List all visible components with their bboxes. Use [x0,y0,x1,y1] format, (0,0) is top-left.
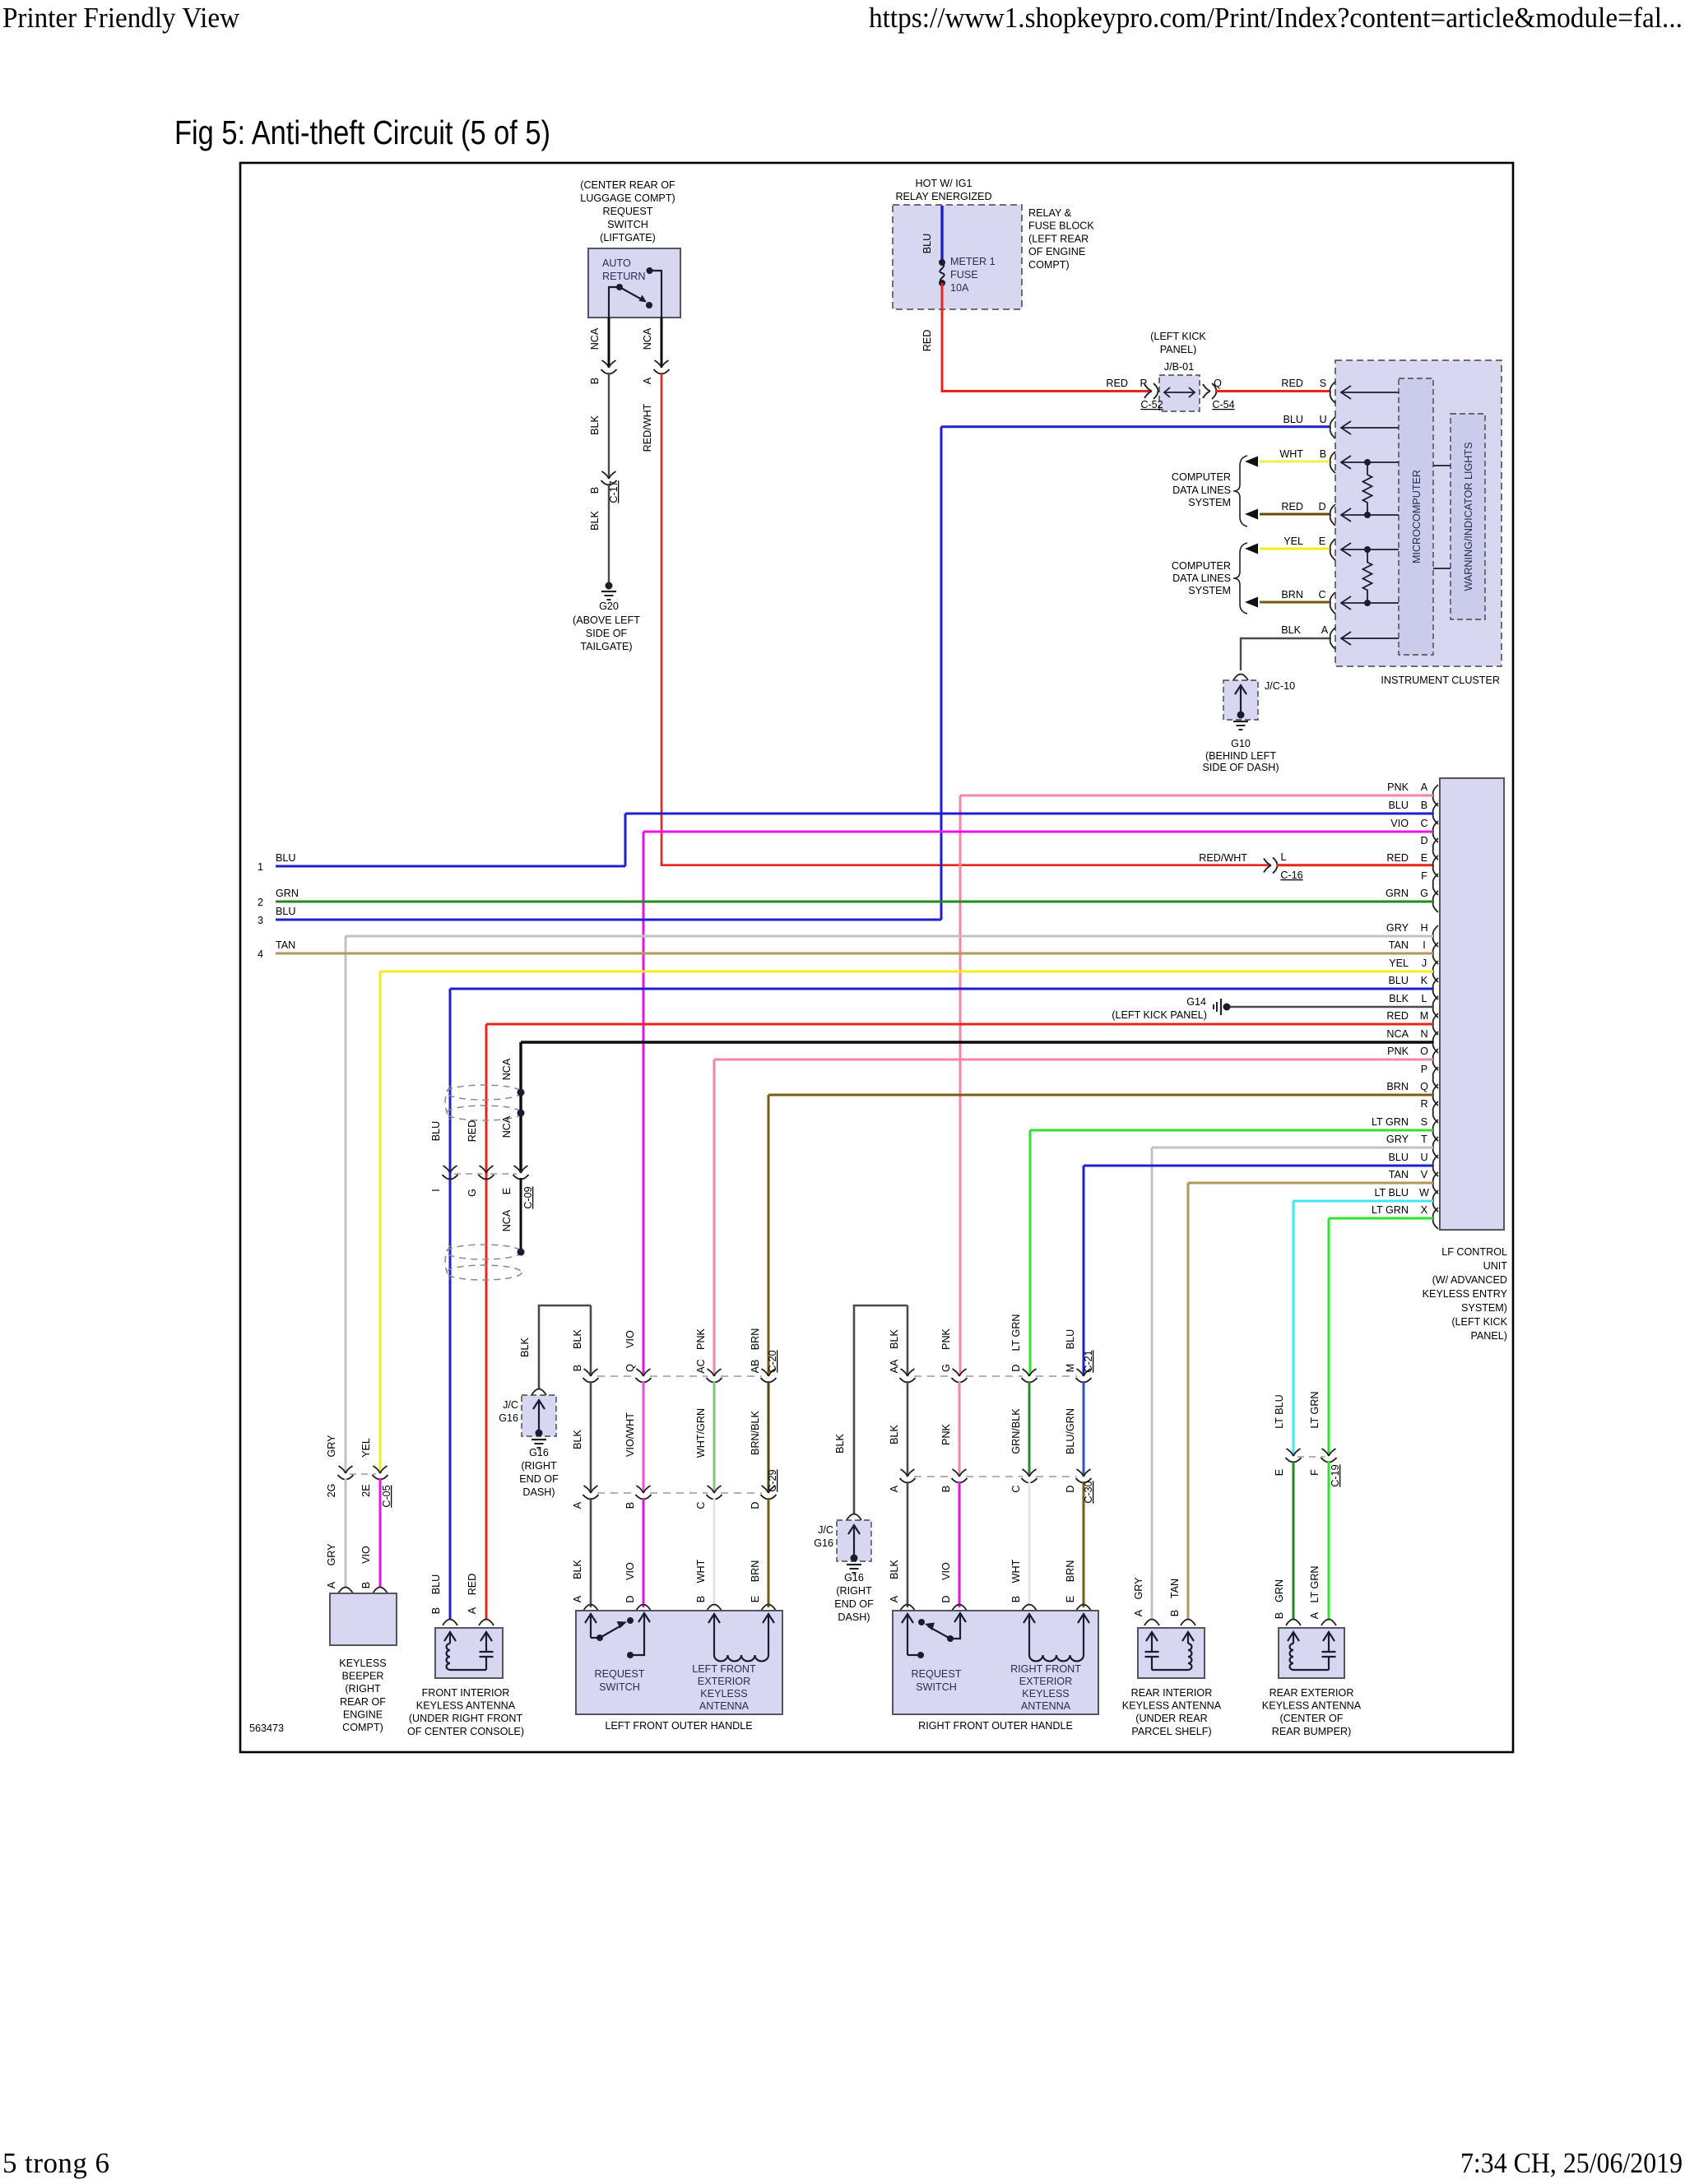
svg-text:NCA: NCA [589,327,601,350]
svg-text:AB: AB [750,1360,761,1374]
svg-text:YEL: YEL [1283,536,1303,547]
wire VIO/WHT C-20 to C-29 [643,1381,645,1491]
svg-text:UNIT: UNIT [1483,1260,1508,1272]
rear interior keyless antenna box [1138,1628,1205,1678]
svg-text:PANEL): PANEL) [1470,1330,1507,1342]
svg-text:GRY: GRY [1386,1134,1409,1145]
right request switch SW3 [907,1615,908,1655]
connector C-29 pin D [762,1486,776,1493]
svg-text:B: B [572,1365,583,1371]
svg-text:GRY: GRY [1386,922,1409,934]
shield twisted pair lower [446,1245,522,1259]
svg-text:RED: RED [921,330,933,352]
svg-text:B: B [1274,1612,1285,1619]
svg-text:BLU/GRN: BLU/GRN [1065,1408,1076,1454]
svg-text:SYSTEM): SYSTEM) [1461,1302,1507,1314]
svg-text:B: B [589,487,601,494]
svg-text:(RIGHT: (RIGHT [836,1585,872,1597]
wire BLU vertical to front interior antenna [449,989,452,1619]
svg-text:D: D [1010,1364,1022,1371]
wire GRY vertical to rear interior antenna [1151,1148,1154,1619]
svg-text:KEYLESS: KEYLESS [700,1688,747,1699]
svg-text:C-20: C-20 [767,1350,778,1372]
wire PNK vertical to C-20 [713,1060,716,1375]
svg-text:7:34 CH, 25/06/2019: 7:34 CH, 25/06/2019 [1460,2147,1683,2179]
wire TAN LF pin V [1188,1182,1433,1185]
svg-text:(UNDER REAR: (UNDER REAR [1135,1713,1207,1724]
wire BLK to ground G20 [608,484,610,583]
svg-text:METER 1: METER 1 [950,256,996,267]
svg-text:GRY: GRY [326,1435,337,1458]
LF pin T [1433,1137,1438,1158]
diagram frame [240,163,1513,1752]
wire VIO C-29 to switch [643,1498,645,1607]
svg-text:ANTENNA: ANTENNA [699,1700,750,1712]
connector C-17 [602,471,616,479]
antenna bottom bus [450,1669,486,1671]
svg-text:T: T [1421,1134,1427,1145]
left front exterior antenna L2 [713,1615,715,1655]
warning/indicator lights box [1451,414,1485,619]
svg-text:(LEFT KICK PANEL): (LEFT KICK PANEL) [1112,1009,1207,1021]
svg-text:S: S [1320,378,1326,389]
svg-text:563473: 563473 [249,1723,284,1734]
svg-text:RED: RED [1281,501,1303,512]
microcomputer box U2 [1399,378,1433,655]
svg-text:10A: 10A [950,282,969,294]
wire BLU LF pin K [450,988,1433,990]
ground G16 right [847,1564,861,1565]
wire GRY vertical to C-05 [345,936,347,1472]
svg-text:SWITCH: SWITCH [599,1681,640,1693]
svg-text:GRN: GRN [1386,888,1409,899]
svg-text:TAN: TAN [1389,1169,1409,1180]
wire BLU vertical (cluster U to line 3) [940,427,943,920]
svg-text:LT GRN: LT GRN [1309,1391,1321,1428]
svg-text:C-52: C-52 [1140,399,1163,410]
wire BLU LF pin U [1084,1165,1433,1167]
svg-text:REQUEST: REQUEST [603,206,653,217]
svg-text:PNK: PNK [940,1328,952,1349]
connector C-54 [1203,384,1210,398]
wire VIO to beeper pin B [379,1478,382,1587]
svg-text:ENGINE: ENGINE [343,1709,383,1720]
svg-text:WARNING/INDICATOR LIGHTS: WARNING/INDICATOR LIGHTS [1463,443,1474,591]
LF control unit box [1440,778,1504,1230]
wire TAN vertical to rear interior antenna [1187,1183,1190,1619]
svg-text:RIGHT FRONT: RIGHT FRONT [1010,1663,1081,1675]
svg-text:M: M [1420,1010,1429,1022]
svg-text:KEYLESS ANTENNA: KEYLESS ANTENNA [1122,1700,1222,1712]
svg-text:B: B [430,1607,442,1614]
LF pin Q [1433,1084,1438,1106]
svg-text:BLK: BLK [889,1329,900,1349]
svg-text:KEYLESS: KEYLESS [339,1658,386,1669]
svg-text:GRN: GRN [1274,1579,1285,1602]
rear exterior antenna L5 coil [1293,1633,1294,1644]
svg-text:BLK: BLK [889,1425,900,1444]
wire LT GRN vertical to C-21 [1029,1130,1032,1375]
svg-text:(RIGHT: (RIGHT [345,1683,381,1695]
connector (switch liftgate pin B) [602,360,616,368]
wire BLU vertical to C-21 [1083,1166,1085,1375]
LF pin R [1433,1101,1438,1123]
svg-text:R: R [1420,1098,1427,1110]
svg-text:D: D [1420,835,1427,846]
svg-text:Q: Q [1420,1081,1428,1092]
svg-text:BLU: BLU [1065,1329,1076,1350]
svg-text:SYSTEM: SYSTEM [1188,497,1231,508]
svg-text:P: P [1421,1064,1427,1075]
svg-text:B: B [1010,1596,1022,1602]
wire VIO LF pin C [643,831,1433,833]
svg-text:B: B [1421,800,1427,811]
svg-text:OF CENTER CONSOLE): OF CENTER CONSOLE) [407,1726,524,1737]
wire RED vertical to front interior antenna [485,1024,488,1619]
switch SW1 arm [620,287,642,299]
antenna C1 capacitor [485,1633,487,1652]
svg-text:BLK: BLK [1281,624,1301,636]
LF pin I [1433,943,1438,964]
svg-text:K: K [1421,975,1428,986]
svg-text:LUGGAGE COMPT): LUGGAGE COMPT) [580,192,675,204]
svg-text:REQUEST: REQUEST [912,1668,962,1680]
svg-text:LT BLU: LT BLU [1374,1187,1409,1199]
svg-text:U: U [1319,414,1326,425]
wire BLU/GRN C-21 to C-30 [1083,1381,1085,1475]
svg-text:BLU: BLU [276,906,296,917]
LF pin W [1433,1190,1438,1212]
svg-text:BLU: BLU [1389,975,1409,986]
svg-text:W: W [1419,1187,1429,1199]
connector C-09 [443,1166,457,1173]
wire NCA below C-09 [520,1178,522,1250]
LF pin U [1433,1155,1438,1176]
svg-text:H: H [1420,922,1427,934]
svg-text:G16: G16 [814,1537,833,1549]
rear exterior antenna C3 capacitor [1328,1633,1330,1652]
ground G14 [1223,1004,1231,1011]
junction connector J/C G16 left [531,1389,546,1396]
wire WHT/GRN C-20 to C-29 [713,1381,716,1491]
brace computer data lines 2 [1233,543,1247,614]
svg-text:DASH): DASH) [838,1611,870,1623]
svg-text:END OF: END OF [519,1473,559,1485]
svg-text:INSTRUMENT CLUSTER: INSTRUMENT CLUSTER [1381,675,1500,686]
svg-text:RED: RED [1106,378,1128,389]
svg-text:KEYLESS ANTENNA: KEYLESS ANTENNA [416,1700,516,1712]
wire BLK C-30 to switch [907,1482,909,1607]
left request switch SW2 [590,1615,592,1638]
svg-text:ANTENNA: ANTENNA [1021,1700,1071,1712]
svg-text:RED/WHT: RED/WHT [642,403,653,452]
wire BLU LF pin B [625,813,1433,815]
LF pin G [1433,891,1438,912]
right front outer handle sockets [900,1605,915,1611]
fuse METER 1 FUSE 10A [939,259,945,266]
svg-text:C-05: C-05 [381,1485,392,1507]
svg-text:BLK: BLK [1389,993,1409,1004]
svg-text:V: V [1421,1169,1428,1180]
svg-text:LT GRN: LT GRN [1010,1314,1022,1351]
svg-text:BLU: BLU [1283,414,1304,425]
svg-text:TAN: TAN [276,939,295,951]
wire GRY LF pin T [1152,1147,1433,1149]
cluster resistor R2 [1364,546,1371,553]
wire BRN/BLK C-20 to C-29 [768,1381,770,1491]
svg-text:M: M [1065,1364,1076,1373]
svg-text:TAN: TAN [1389,939,1409,951]
connector C-52 [1144,384,1152,398]
svg-text:A: A [1309,1611,1321,1619]
wire LT BLU vertical to C-19 [1293,1201,1295,1454]
instrument cluster pin terminals [1330,382,1335,403]
brace computer data lines 1 [1233,456,1247,526]
svg-text:BLK: BLK [572,1430,583,1449]
svg-text:E: E [1421,852,1427,864]
svg-text:RETURN: RETURN [602,271,645,282]
svg-text:WHT: WHT [695,1559,707,1583]
svg-text:BEEPER: BEEPER [341,1671,383,1682]
svg-text:WHT: WHT [1279,448,1303,460]
wire BLK cluster pin A to J/C-10 [1241,638,1330,670]
svg-text:A: A [1321,624,1329,636]
svg-text:(CENTER OF: (CENTER OF [1280,1713,1344,1724]
svg-text:LT GRN: LT GRN [1372,1204,1409,1216]
ground G16 left [531,1439,546,1440]
svg-text:B: B [695,1596,707,1602]
connector C-29 pin C [708,1486,722,1493]
rear interior antenna sockets [1144,1620,1159,1626]
svg-text:B: B [940,1486,952,1492]
wire WHT C-30 to antenna [1028,1482,1031,1607]
svg-text:E: E [1319,536,1325,547]
svg-text:J: J [1422,958,1427,969]
keyless beeper box [330,1593,397,1645]
svg-text:REAR BUMPER): REAR BUMPER) [1272,1726,1352,1737]
svg-text:F: F [1421,870,1427,882]
svg-text:A: A [572,1501,583,1509]
svg-text:2E: 2E [360,1484,372,1496]
wire RED/WHT down to C-16 row [661,373,663,866]
wire YEL LF pin J [380,971,1433,973]
svg-text:LEFT FRONT OUTER HANDLE: LEFT FRONT OUTER HANDLE [605,1720,752,1732]
switch SW1 contacts [647,267,653,274]
svg-text:Q: Q [624,1364,636,1372]
wire BRN vertical to C-20 [768,1095,770,1375]
wire VIO C-30 to switch [959,1482,961,1607]
svg-text:C-30: C-30 [1083,1481,1094,1503]
svg-text:BLK: BLK [519,1338,531,1357]
svg-text:A: A [572,1595,583,1602]
svg-text:C-21: C-21 [1083,1350,1094,1372]
svg-text:NCA: NCA [1386,1028,1409,1040]
svg-text:BRN: BRN [1065,1560,1076,1583]
svg-text:NCA: NCA [642,327,653,350]
svg-text:DASH): DASH) [522,1486,555,1498]
LF pin C [1433,821,1438,842]
svg-text:A: A [1133,1609,1144,1616]
rear interior antenna L4 coil [1187,1633,1189,1644]
svg-text:J/C: J/C [503,1399,518,1411]
svg-text:RED/WHT: RED/WHT [1199,852,1247,864]
wire YEL cluster pin E (computer data line) [1260,548,1330,550]
svg-text:YEL: YEL [1389,958,1409,969]
svg-text:VIO/WHT: VIO/WHT [624,1412,636,1457]
svg-text:BLU: BLU [1389,800,1409,811]
left front outer handle sockets [583,1605,598,1611]
svg-text:D: D [1065,1485,1076,1492]
antenna L1 coil [449,1633,451,1644]
LF pin L [1433,996,1438,1018]
svg-text:RED: RED [467,1574,478,1596]
svg-text:OF ENGINE: OF ENGINE [1028,246,1085,257]
wire LT BLU LF pin W [1293,1200,1433,1203]
connector C-30 row [914,1476,953,1477]
svg-text:(RIGHT: (RIGHT [521,1460,557,1472]
LF pin B [1433,803,1438,824]
svg-text:MICROCOMPUTER: MICROCOMPUTER [1411,470,1423,563]
svg-text:B: B [624,1502,636,1509]
link microcomputer to warning lights [1433,465,1451,466]
wire TAN LF pin I (line 4) [276,953,1433,955]
rear interior antenna C2 capacitor [1151,1633,1153,1652]
svg-text:REQUEST: REQUEST [595,1668,645,1680]
svg-text:O: O [1420,1046,1428,1057]
svg-text:YEL: YEL [360,1438,372,1458]
svg-text:BLK: BLK [834,1434,846,1454]
svg-text:FRONT INTERIOR: FRONT INTERIOR [422,1687,510,1699]
wire GRN LF pin G (line 2) [276,901,1433,903]
connector C-30 pin A [901,1469,915,1477]
svg-text:COMPUTER: COMPUTER [1172,560,1231,572]
svg-text:C: C [1420,818,1427,829]
svg-text:(CENTER REAR OF: (CENTER REAR OF [580,179,675,191]
instrument cluster box [1335,360,1502,666]
LF pin S [1433,1120,1438,1141]
wire YEL vertical to C-05 [379,971,382,1472]
LF pin M [1433,1013,1438,1035]
svg-text:U: U [1420,1152,1427,1163]
svg-text:BLK: BLK [572,1560,583,1579]
svg-text:RELAY ENERGIZED: RELAY ENERGIZED [895,191,991,202]
svg-text:X: X [1421,1204,1428,1216]
svg-text:C-16: C-16 [1280,869,1302,881]
svg-text:3: 3 [258,915,263,926]
svg-text:BRN: BRN [1386,1081,1409,1092]
J/B-01 internal bus arrow [1164,392,1195,393]
svg-text:TAILGATE): TAILGATE) [580,641,632,652]
svg-text:KEYLESS ANTENNA: KEYLESS ANTENNA [1262,1700,1362,1712]
svg-text:RED: RED [1281,378,1303,389]
svg-text:LT GRN: LT GRN [1309,1565,1321,1602]
svg-text:GRY: GRY [326,1543,337,1566]
LF pin H [1433,925,1438,947]
connector C-20 row [597,1375,637,1377]
svg-text:C: C [1318,589,1325,600]
svg-text:NCA: NCA [501,1115,513,1138]
svg-text:LEFT FRONT: LEFT FRONT [692,1663,756,1675]
wire VIO vertical to C-20 [643,832,645,1375]
svg-text:B: B [360,1582,372,1588]
LF pin N [1433,1032,1438,1053]
keyless beeper sockets [338,1588,353,1594]
svg-text:FUSE: FUSE [950,269,978,281]
ground G10 [1233,721,1248,722]
svg-text:(ABOVE LEFT: (ABOVE LEFT [573,614,640,626]
connector C-21 row [914,1375,953,1377]
connector C-20 pin AB [762,1369,776,1376]
wire NCA vertical to shield [519,1042,522,1171]
svg-text:PNK: PNK [695,1328,707,1349]
wire RED LF pin M [486,1023,1433,1026]
svg-text:(BEHIND LEFT: (BEHIND LEFT [1205,750,1276,762]
svg-text:EXTERIOR: EXTERIOR [1019,1676,1072,1687]
liftgate request switch box [588,248,680,318]
svg-text:NCA: NCA [501,1209,513,1231]
rear interior antenna bottom bus [1152,1669,1188,1671]
svg-text:E: E [1065,1596,1076,1602]
LF pin J [1433,961,1438,982]
svg-text:D: D [750,1501,761,1509]
wire PNK C-21 to C-30 [959,1381,961,1475]
junction connector J/C G16 right [847,1514,861,1521]
junction connector J/C-10 [1233,675,1248,681]
svg-text:SYSTEM: SYSTEM [1188,585,1231,596]
svg-text:VIO: VIO [940,1562,952,1580]
connector C-20 pin AC [708,1369,722,1376]
svg-text:2G: 2G [326,1484,337,1498]
svg-text:C-54: C-54 [1212,399,1234,410]
svg-text:BRN: BRN [750,1560,761,1583]
right front exterior antenna L3 [1028,1615,1030,1655]
svg-text:RIGHT FRONT OUTER HANDLE: RIGHT FRONT OUTER HANDLE [918,1720,1073,1732]
rear exterior keyless antenna box [1279,1628,1344,1678]
wire BLK to J/C G16 right [854,1305,907,1514]
wire BLU into fuse [940,206,943,262]
wire BLK to C-17 [608,373,610,477]
svg-text:COMPT): COMPT) [342,1722,383,1733]
wire GRN C-19 to rear exterior antenna [1293,1461,1295,1619]
svg-text:N: N [1420,1028,1427,1040]
svg-text:BRN: BRN [1281,589,1303,600]
svg-text:C-09: C-09 [522,1186,534,1208]
wire BRN cluster pin C (computer data line) [1260,601,1330,604]
svg-text:(LEFT KICK: (LEFT KICK [1451,1316,1507,1328]
svg-text:1: 1 [258,861,263,873]
svg-text:PNK: PNK [1387,1046,1409,1057]
wire BLK C-29 to switch [590,1498,592,1607]
svg-text:RED: RED [467,1120,478,1143]
svg-text:BRN: BRN [750,1328,761,1351]
wire LT GRN LF pin S [1030,1129,1433,1132]
wire BRN C-30 to antenna [1083,1482,1085,1607]
svg-text:VIO: VIO [624,1330,636,1348]
LF pin P [1433,1067,1438,1088]
svg-text:B: B [1169,1610,1181,1616]
svg-text:COMPUTER: COMPUTER [1172,471,1231,483]
svg-text:BLU: BLU [276,852,296,864]
connector C-16 [1264,859,1271,873]
svg-text:COMPT): COMPT) [1028,259,1070,271]
svg-text:PANEL): PANEL) [1160,344,1197,355]
svg-text:C-29: C-29 [767,1469,778,1491]
wire BLK left request switch [590,1305,592,1375]
svg-text:BLU: BLU [1389,1152,1409,1163]
svg-text:LF CONTROL: LF CONTROL [1441,1246,1507,1258]
wire LT GRN C-19 to rear exterior antenna [1328,1461,1330,1619]
svg-text:D: D [1318,501,1325,512]
